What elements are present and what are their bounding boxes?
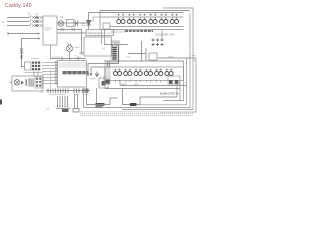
wire drop arrowheads (57, 106, 68, 108)
ribbon pin ends (55, 62, 57, 84)
switch contact L1 (29, 16, 43, 19)
cable run fifth (163, 61, 184, 101)
secondary strip box (105, 67, 184, 81)
label near bus start (52, 56, 60, 58)
mains wire L1 (7, 17, 29, 19)
fuse X marks on lower run (61, 28, 75, 31)
front panel board box (58, 61, 87, 88)
ribbon wires (42, 63, 58, 84)
wire right mid (158, 57, 196, 59)
wire lower run (57, 29, 82, 31)
wire top bus lower (89, 12, 184, 14)
winding turns row 2 (113, 72, 173, 76)
panel label bar gaps (67, 71, 86, 74)
fan box stub (10, 82, 13, 84)
wire S1 to fan bus (50, 45, 52, 59)
wire top bus upper (100, 10, 190, 12)
scanner shade column behind transformer (111, 40, 120, 64)
arrow down small (95, 72, 98, 77)
terminal links down (34, 71, 38, 76)
svg-text:ESAB 0740 140: ESAB 0740 140 (160, 92, 179, 96)
svg-text:SVART: SVART (120, 83, 128, 86)
motor arrow (21, 81, 24, 85)
pcb board A1 (84, 37, 112, 56)
margin mark (0, 100, 2, 105)
earth wire arrow (8, 32, 40, 35)
terminal block X1 (32, 62, 40, 71)
fan side label (75, 47, 80, 49)
svg-text:TS: TS (60, 16, 63, 19)
mains wire L2 (7, 21, 29, 23)
switch contact L3 (29, 24, 43, 27)
wire hook inside block (93, 17, 100, 22)
inductor inner small box (103, 23, 110, 29)
fuse F1 L1 (35, 17, 38, 19)
hatch stripes (29, 78, 34, 86)
junction box (25, 62, 32, 70)
svg-text:KRETSKORT: KRETSKORT (88, 33, 102, 35)
output loop wire (123, 89, 178, 105)
strip drop links (105, 81, 120, 89)
earth wire L-run (22, 37, 41, 66)
footer rule (80, 112, 193, 116)
wire to control box (57, 32, 86, 34)
winding taps row 1 (118, 14, 178, 20)
pcb top connector slim box (86, 30, 114, 36)
switch box inner label (45, 28, 53, 30)
wire under terminal assembly (25, 72, 44, 74)
wire L pair arrow b (90, 67, 105, 76)
wire ribbon to comb (50, 70, 52, 88)
plug symbol (75, 21, 79, 27)
winding turns row 1 (117, 20, 179, 24)
wire vertical drop from bus (88, 13, 90, 30)
label marks left (84, 89, 89, 92)
fan assembly outer box (12, 76, 43, 91)
wire drop mid (96, 88, 98, 104)
cable run second outer (122, 8, 193, 110)
wire L pair arrow a (87, 64, 118, 77)
wire S1 to thermostat (57, 22, 89, 24)
fuse F1 L2 (35, 21, 38, 23)
edge connector rail (46, 90, 90, 92)
wire long mid (104, 60, 184, 62)
svg-text:Caddy 140: Caddy 140 (5, 3, 32, 9)
dark bar (26, 79, 27, 85)
fuse F1 L3 (35, 25, 38, 27)
wire connector drop b (145, 48, 147, 61)
svg-text:ROD: ROD (134, 84, 139, 86)
slim box divider (86, 33, 114, 37)
inner block cells (36, 78, 41, 87)
inner block (35, 77, 42, 88)
capacitor on earth wire (20, 49, 23, 59)
shunt label block (96, 104, 105, 107)
panel bus ticks (62, 59, 78, 61)
strip left terminal box (104, 76, 110, 84)
five wire drop group (56, 96, 70, 109)
strip bottom ticks (115, 81, 160, 83)
strip output wire b (176, 81, 178, 98)
cable run third (84, 13, 191, 108)
comb group labels (49, 94, 88, 96)
strip right terminal box (168, 76, 180, 84)
strip core pair (108, 62, 110, 68)
tick label row under box edge (125, 30, 153, 32)
pin bars at drop end (80, 53, 84, 55)
enclosure outer border (160, 8, 196, 112)
strip output wire a (179, 81, 181, 101)
connector pin grid (152, 39, 164, 47)
cable run fourth (140, 58, 187, 105)
label X1 (31, 58, 39, 60)
svg-text:TRANSF: TRANSF (112, 41, 121, 44)
wire connector drop a (141, 41, 143, 61)
wires pair down centre (73, 94, 79, 112)
winding taps row 2 (114, 69, 172, 72)
wires inductor to transformer (102, 30, 105, 45)
mains switch box (43, 16, 57, 45)
circled X component (58, 21, 64, 27)
thermostat box (67, 20, 75, 27)
fan symbol circle (66, 44, 72, 59)
connector block dark (62, 109, 69, 112)
switch link dashed (29, 16, 31, 28)
inductor block box (100, 11, 184, 30)
svg-text:SEKUNDER 140A: SEKUNDER 140A (155, 34, 175, 37)
diode D1 (87, 21, 92, 26)
svg-text:PRIM: PRIM (90, 79, 96, 81)
current pot box (99, 78, 108, 88)
relay box (149, 53, 157, 60)
tiny labels right edge (192, 56, 197, 61)
transformer primary coil (112, 47, 116, 60)
wire below strip 2 (120, 85, 187, 87)
switch contact L2 (29, 20, 43, 23)
label D1 (81, 24, 85, 26)
output blob (130, 103, 137, 106)
wire drop left of pcb (81, 30, 83, 53)
motor circle (14, 80, 20, 86)
panel dark label bar (63, 71, 89, 74)
inner U wire (87, 88, 118, 105)
svg-text:TILL: TILL (126, 57, 131, 59)
mains wire L3 (7, 25, 29, 27)
wire fan bus (50, 57, 86, 59)
wire below strip 1 (105, 88, 180, 90)
panel inner wires (59, 63, 87, 67)
wire above coil (104, 45, 128, 48)
wire grid to box (161, 30, 163, 39)
svg-text:N: N (2, 20, 4, 24)
transformer core line (118, 45, 120, 64)
wire horizontal to drops (128, 53, 146, 55)
edge connector comb (48, 89, 88, 94)
